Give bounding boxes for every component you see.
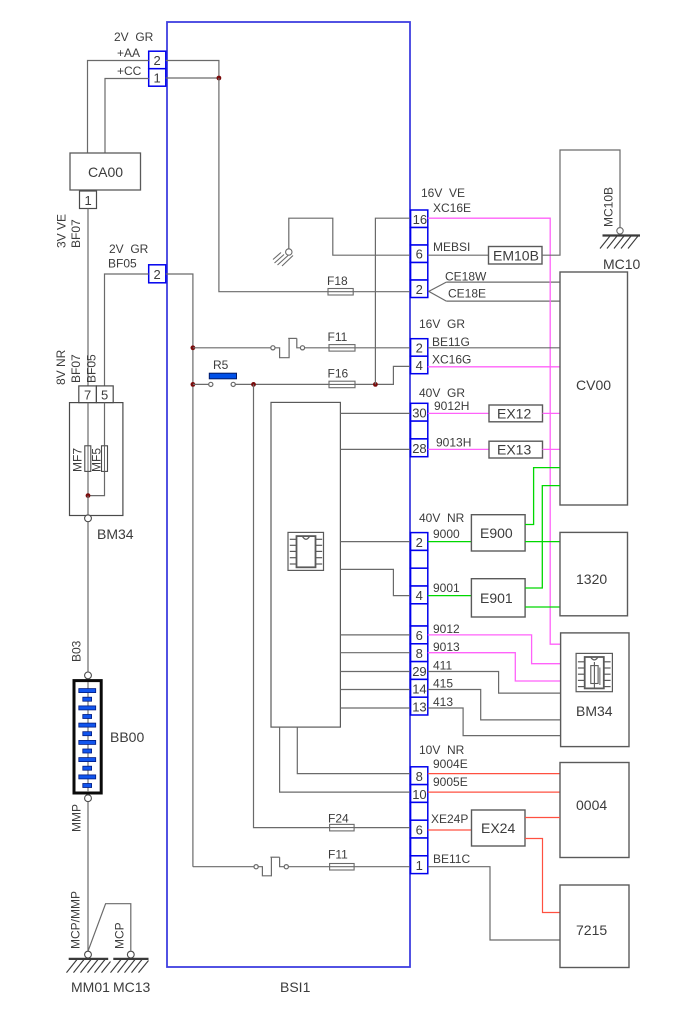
svg-text:B03: B03 — [70, 640, 84, 662]
svg-text:28: 28 — [412, 441, 426, 456]
junction F16/XC16E — [373, 382, 378, 387]
wire XC16E magenta pin16 to BM34 — [428, 218, 561, 644]
svg-text:MC10B: MC10B — [602, 187, 616, 227]
svg-text:1: 1 — [416, 858, 423, 873]
wire controller to pin14 415 — [340, 689, 410, 691]
connector cell empty — [411, 604, 428, 626]
svg-text:29: 29 — [412, 664, 426, 679]
connector pin 1 (+CC) — [149, 69, 166, 87]
svg-text:9012: 9012 — [433, 622, 460, 636]
svg-text:1: 1 — [85, 193, 92, 208]
wire E900 to CV00 green — [525, 468, 560, 525]
wire E901 to CV00 green — [525, 486, 560, 588]
svg-text:MC10: MC10 — [603, 256, 641, 272]
svg-text:40V NR: 40V NR — [419, 511, 465, 525]
svg-text:9005E: 9005E — [433, 775, 468, 789]
module box CV00 — [560, 272, 628, 505]
connector pin 29 — [411, 662, 428, 680]
svg-text:CE18W: CE18W — [445, 270, 487, 284]
connector pin 6 9012 — [411, 626, 428, 644]
wire controller to pin8 9004E — [297, 727, 410, 774]
svg-text:CA00: CA00 — [88, 164, 123, 180]
module box 1320 — [560, 532, 628, 615]
wire CE18W to CV00 — [446, 281, 560, 283]
svg-text:7215: 7215 — [576, 922, 607, 938]
wire CE18E to CV00 — [446, 300, 560, 302]
wire controller to pin4 9001 — [340, 569, 410, 595]
switch contact (F11 top) — [271, 338, 305, 357]
connector pin 30 — [411, 403, 428, 421]
svg-text:MMP: MMP — [70, 804, 84, 832]
wire pin2 into BSI1 — [166, 61, 219, 79]
wire 9005E red to 0004 — [428, 791, 560, 793]
svg-text:F18: F18 — [327, 274, 348, 288]
wire E900 to 1320 green — [525, 541, 560, 543]
svg-text:8: 8 — [416, 769, 423, 784]
svg-text:EX12: EX12 — [497, 406, 531, 422]
svg-text:BF05: BF05 — [108, 257, 137, 271]
module box 7215 — [560, 885, 629, 968]
module box E901 — [471, 579, 525, 617]
switch MCP/MMP blade — [88, 904, 131, 952]
wire XE24P red to EX24 — [428, 829, 472, 831]
svg-text:16: 16 — [413, 212, 427, 227]
svg-text:2: 2 — [154, 53, 161, 68]
ground terminal MM01 circle — [85, 951, 92, 958]
ground inside BSI1 — [273, 249, 293, 266]
controller block inside BSI1 — [271, 402, 340, 727]
svg-text:MCP/MMP: MCP/MMP — [69, 891, 83, 949]
switch contact (F11 bottom) — [254, 857, 288, 876]
connector pin 2 BE11G — [411, 339, 428, 357]
relay box EM10B — [489, 247, 543, 265]
fuse F16 — [328, 367, 356, 388]
wire EM10B to MC10B ground — [542, 150, 620, 255]
module box E900 — [471, 515, 525, 551]
junction F11 top — [191, 345, 196, 350]
svg-text:BF05: BF05 — [85, 354, 99, 383]
connector cell empty — [411, 263, 428, 281]
wire 9000 green pin2 to E900 — [428, 541, 472, 543]
svg-text:F24: F24 — [328, 812, 349, 826]
wire 9013H magenta to EX13 — [428, 448, 489, 450]
wire EX12 to CV00 magenta — [543, 412, 561, 414]
wire controller to pin8 9013 — [340, 652, 410, 654]
svg-text:BE11C: BE11C — [433, 852, 470, 866]
svg-text:EX13: EX13 — [497, 442, 531, 458]
svg-text:F11: F11 — [328, 330, 348, 344]
svg-text:BB00: BB00 — [110, 729, 144, 745]
ground MC13 — [111, 959, 149, 973]
wire 415 to BM34 — [428, 690, 561, 720]
svg-text:XC16G: XC16G — [432, 353, 471, 367]
connector cell empty — [411, 838, 428, 856]
svg-text:1: 1 — [154, 71, 161, 86]
ground MM01 — [67, 959, 111, 973]
svg-text:16V GR: 16V GR — [419, 317, 465, 331]
svg-text:14: 14 — [412, 682, 426, 697]
svg-text:2: 2 — [416, 282, 423, 297]
wire MEBSI pin6 to EM10B — [428, 254, 489, 256]
terminal circle BM34 — [85, 515, 92, 522]
svg-text:2: 2 — [154, 267, 161, 282]
wire controller to pin30 — [340, 412, 410, 414]
svg-text:9001: 9001 — [433, 581, 460, 595]
ground MC10B — [600, 228, 640, 249]
ground terminal MC13 circle — [127, 951, 134, 958]
ECU box BSI1 — [167, 22, 410, 995]
svg-text:+AA: +AA — [117, 46, 140, 60]
svg-text:2V GR: 2V GR — [109, 242, 149, 256]
wire controller to pin29 411 — [340, 671, 410, 673]
wire EX24 to 0004 red — [525, 817, 560, 819]
svg-text:9000: 9000 — [433, 527, 460, 541]
wire 9012 magenta to BM34 — [428, 635, 561, 664]
wire 411 to BM34 — [428, 672, 561, 694]
wire BE11G to CV00 — [428, 347, 560, 349]
connector pin 1 of CA00 — [80, 191, 97, 209]
wire 9012H magenta to EX12 — [428, 412, 489, 414]
svg-text:8V NR: 8V NR — [54, 349, 68, 385]
svg-text:BE11G: BE11G — [432, 335, 470, 349]
svg-text:+CC: +CC — [117, 64, 142, 78]
svg-text:BM34: BM34 — [576, 703, 613, 719]
module box 0004 — [560, 763, 629, 858]
connector pin 16 XC16E — [411, 210, 428, 228]
relay box EX12 — [489, 405, 543, 422]
resistor R5 (shunt with contacts) — [209, 358, 237, 387]
svg-text:EX24: EX24 — [481, 820, 515, 836]
wire F11 to pin2 BE11G — [355, 347, 411, 349]
wire BF05 pin2 into BSI1 — [166, 274, 193, 867]
svg-text:MM01: MM01 — [71, 979, 110, 995]
node CE18 arrow — [429, 282, 447, 301]
svg-text:8: 8 — [416, 646, 423, 661]
connector pin 5 of BM34 fusebox — [96, 386, 113, 403]
svg-text:413: 413 — [433, 695, 453, 709]
wire BF07 CA00 to MF7 pin7 — [87, 209, 89, 386]
wire EX24 to 7215 red — [525, 839, 560, 913]
wire 413 to BM34 — [428, 708, 561, 736]
wire 9013 magenta to BM34 — [428, 653, 561, 681]
svg-text:1320: 1320 — [576, 571, 607, 587]
svg-text:MC13: MC13 — [113, 979, 151, 995]
fuse F11 — [328, 330, 356, 351]
svg-text:10V NR: 10V NR — [419, 743, 465, 757]
wire BF05 pin2 to MF7 pin5 — [105, 274, 149, 386]
IC U1 — [288, 532, 324, 570]
relay box EX13 — [489, 441, 543, 458]
svg-text:BM34: BM34 — [97, 526, 134, 542]
fusebox MF7 outline — [70, 403, 123, 516]
connector pin 13 — [411, 697, 428, 715]
wire F11 top line — [193, 347, 271, 349]
relay box CA00 — [70, 153, 141, 190]
wire F24 to pin6 XE24P — [354, 827, 411, 829]
connector cell empty — [411, 421, 428, 439]
connector cell empty — [411, 550, 428, 568]
wire F18 to pin2 CE18E — [353, 291, 410, 293]
svg-text:415: 415 — [433, 677, 453, 691]
wire XC16G magenta to CV00 — [428, 366, 560, 368]
svg-text:10: 10 — [412, 787, 426, 802]
wire EX13 to CV00 magenta — [543, 448, 561, 450]
svg-text:9013: 9013 — [433, 640, 460, 654]
svg-text:XE24P: XE24P — [431, 812, 468, 826]
connector pin 8 9013 — [411, 644, 428, 662]
svg-text:2: 2 — [416, 535, 423, 550]
fuse F18 — [327, 274, 353, 295]
wire 9001 green pin4 to E901 — [428, 595, 472, 597]
connector pin 4 9001 — [411, 586, 428, 604]
svg-text:R5: R5 — [213, 358, 229, 372]
wire controller to pin2 9000 — [340, 541, 410, 543]
svg-text:6: 6 — [416, 247, 423, 262]
wire E901 to 1320 green — [525, 606, 560, 608]
wire pin5 branch — [88, 403, 105, 496]
svg-text:30: 30 — [412, 406, 426, 421]
connector pin 2 (BF05) — [149, 265, 166, 283]
connector pin 8 9004E — [411, 767, 428, 785]
connector cell empty — [411, 568, 428, 586]
wire to R5 — [193, 383, 209, 385]
connector pin 6 XE24P — [411, 820, 428, 838]
motor unit symbol inside BM34 — [576, 653, 612, 691]
svg-text:13: 13 — [412, 699, 426, 714]
junction +CC net — [217, 76, 222, 81]
wire R5 to F16 — [235, 383, 329, 385]
svg-text:CV00: CV00 — [576, 377, 611, 393]
terminal circle battery top — [85, 672, 92, 679]
svg-text:0004: 0004 — [576, 797, 607, 813]
wire controller to pin28 — [340, 448, 410, 450]
fuse F24 — [328, 812, 354, 831]
svg-text:40V GR: 40V GR — [419, 386, 465, 400]
wire vertical to F24 — [254, 384, 330, 827]
wire pin7 branch — [87, 403, 89, 496]
svg-text:16V VE: 16V VE — [421, 186, 465, 200]
wire F11 to pin1 BE11C — [354, 866, 411, 868]
wire ground to MEBSI pin6 — [289, 218, 411, 255]
wire switch to F11 — [305, 347, 329, 349]
svg-text:F11: F11 — [328, 848, 348, 862]
wire controller to pin10 9005E — [280, 727, 411, 792]
wire switch to F11 bottom — [288, 866, 329, 868]
svg-text:E900: E900 — [480, 525, 513, 541]
wire B03 — [87, 522, 89, 672]
svg-text:5: 5 — [101, 388, 108, 403]
relay box EX24 — [472, 810, 526, 846]
junction R5 left — [191, 382, 196, 387]
fuse MF7 — [71, 446, 91, 472]
connector pin 2 9000 — [411, 533, 428, 551]
svg-text:2: 2 — [416, 341, 423, 356]
connector pin 10 — [411, 785, 428, 803]
wire to BM34 terminal — [87, 496, 89, 515]
junction R5 right — [251, 382, 256, 387]
wire F11 bottom line — [193, 866, 254, 868]
connector pin 1 BE11C — [411, 856, 428, 874]
wire MMP — [87, 802, 89, 952]
wire vertical to F18 — [219, 78, 328, 292]
junction MF7/MF5 — [86, 493, 91, 498]
connector pin 2 (+AA) — [149, 51, 166, 68]
connector cell empty — [411, 802, 428, 820]
svg-text:9013H: 9013H — [436, 436, 471, 450]
svg-text:6: 6 — [416, 822, 423, 837]
connector pin 6 MEBSI — [411, 245, 428, 263]
wire controller to pin6 9012 — [340, 634, 410, 636]
fuse F11 (bottom) — [328, 848, 354, 871]
connector pin 2 CE18 — [411, 280, 428, 298]
fuse MF5 — [90, 446, 108, 472]
battery BB00 — [74, 681, 144, 793]
svg-text:F16: F16 — [328, 367, 349, 381]
connector pin 7 of BM34 fusebox — [79, 386, 97, 403]
svg-text:XC16E: XC16E — [433, 201, 471, 215]
svg-text:CE18E: CE18E — [448, 287, 486, 301]
svg-text:3V VE: 3V VE — [55, 214, 69, 248]
svg-text:6: 6 — [416, 628, 423, 643]
svg-text:BSI1: BSI1 — [280, 979, 311, 995]
connector cell empty — [411, 228, 428, 246]
svg-text:7: 7 — [84, 388, 91, 403]
svg-text:411: 411 — [433, 659, 452, 673]
module box BM34 (right) — [561, 633, 629, 747]
wire pin1 into BSI1 — [166, 77, 219, 79]
svg-text:E901: E901 — [480, 590, 513, 606]
wire XC16E vertical — [375, 218, 410, 384]
wire F16 to pin4 XC16G — [355, 366, 411, 384]
wire +AA pin2 to CA00 — [88, 61, 149, 154]
connector pin 4 XC16G — [411, 356, 428, 374]
svg-text:4: 4 — [416, 358, 423, 373]
svg-text:MF7: MF7 — [71, 448, 85, 472]
svg-text:MCP: MCP — [113, 922, 127, 949]
svg-text:2V GR: 2V GR — [114, 30, 154, 44]
svg-text:9012H: 9012H — [434, 399, 469, 413]
svg-text:4: 4 — [416, 588, 423, 603]
svg-text:BF07: BF07 — [69, 354, 83, 383]
svg-text:9004E: 9004E — [433, 757, 468, 771]
terminal circle battery bottom — [85, 795, 92, 802]
wire controller to pin13 413 — [340, 707, 410, 709]
wire +CC pin1 to CA00 — [105, 79, 149, 154]
svg-text:MEBSI: MEBSI — [433, 240, 470, 254]
svg-text:EM10B: EM10B — [493, 248, 539, 264]
connector pin 28 — [411, 439, 428, 457]
connector pin 14 — [411, 679, 428, 697]
svg-text:BF07: BF07 — [69, 219, 83, 248]
wire BE11C to 7215 — [428, 867, 560, 940]
wire 9004E red to 0004 — [428, 773, 560, 775]
svg-text:MF5: MF5 — [90, 448, 104, 472]
